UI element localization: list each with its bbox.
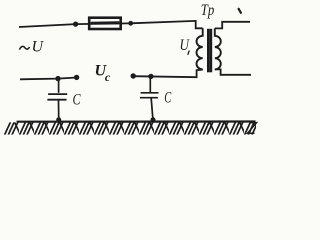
svg-text:C: C [73, 92, 81, 109]
svg-text:c: c [105, 70, 111, 84]
svg-text:C: C [164, 89, 171, 106]
svg-text:U: U [32, 39, 45, 56]
svg-text:Tp: Tp [201, 2, 215, 19]
